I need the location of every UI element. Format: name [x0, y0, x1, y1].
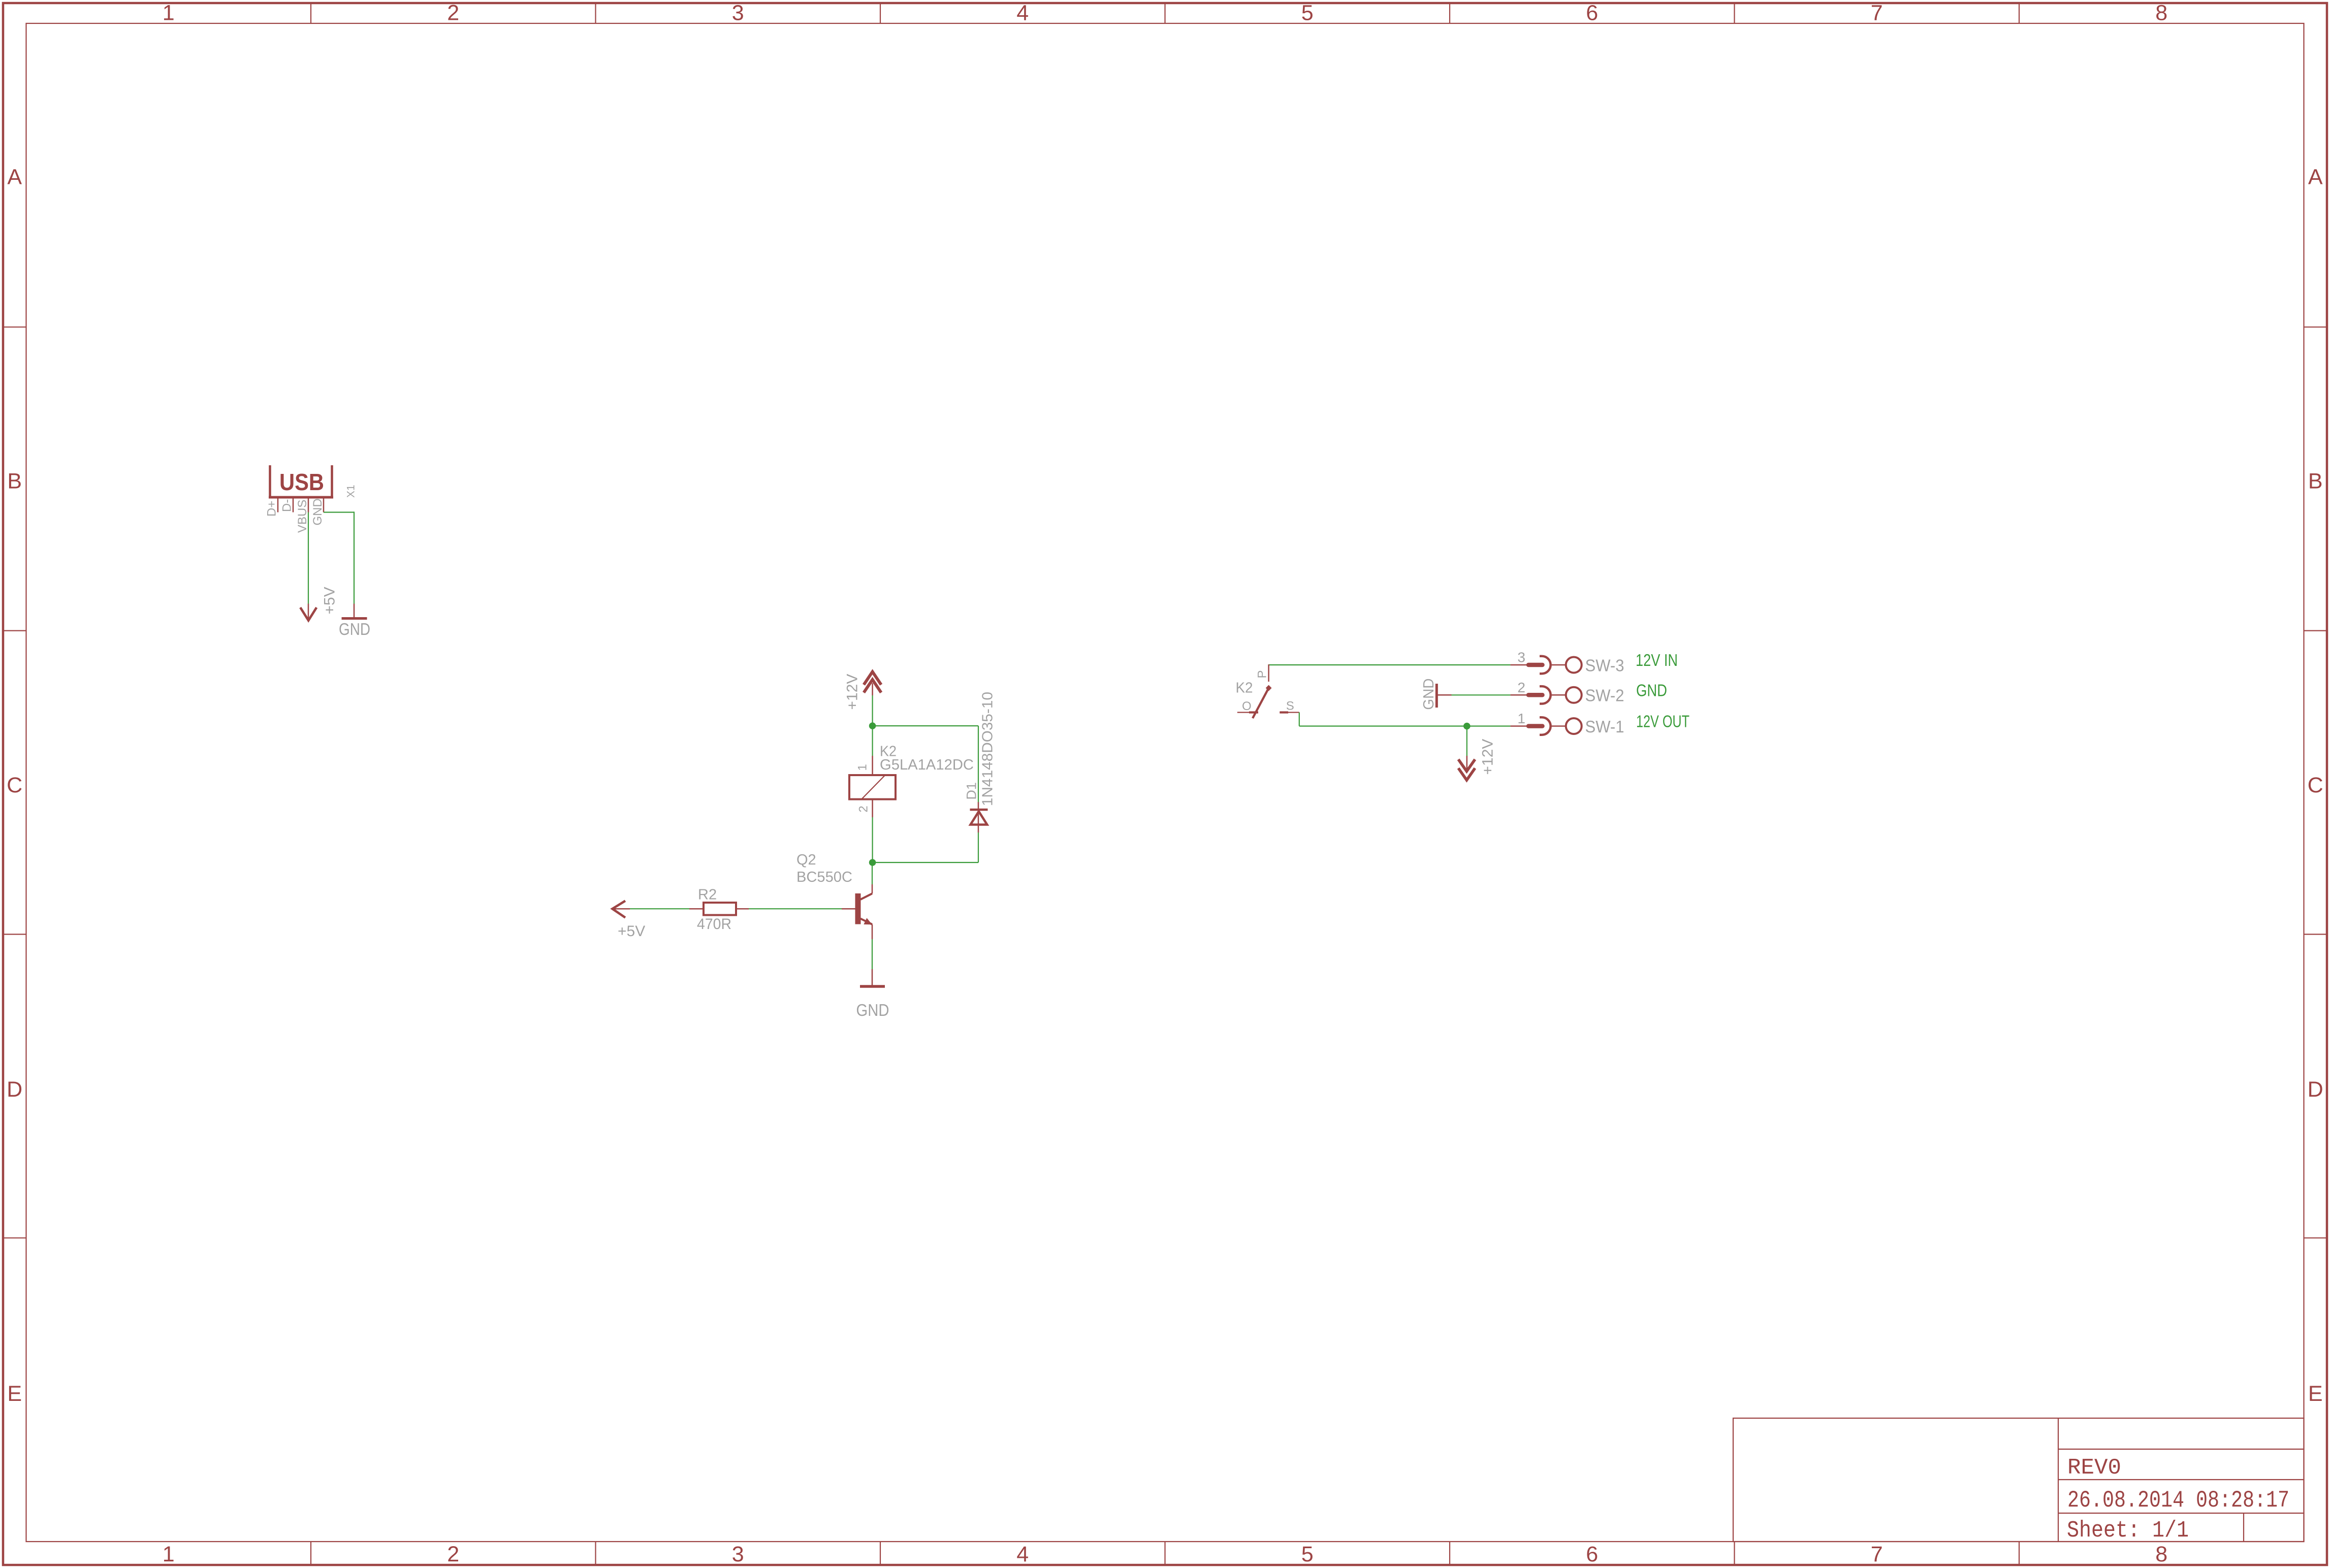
svg-text:12V OUT: 12V OUT [1636, 712, 1689, 731]
svg-text:6: 6 [1586, 1542, 1598, 1566]
wire S contact down [1299, 713, 1300, 726]
svg-text:1: 1 [1517, 711, 1525, 726]
resistor R2 body [704, 903, 736, 915]
svg-text:D: D [7, 1077, 22, 1102]
relay K2 pin 1 [872, 756, 873, 775]
wire junction to +12V down [1466, 726, 1467, 756]
relay K2 coil body [849, 775, 896, 799]
contact terminal S [1280, 712, 1299, 713]
svg-text:+5V: +5V [618, 923, 645, 940]
diode D1 cathode bar [970, 809, 988, 811]
svg-text:A: A [2308, 165, 2323, 189]
svg-text:+12V: +12V [844, 674, 861, 710]
svg-text:GND: GND [1636, 681, 1667, 700]
wire +5V to R2 [630, 908, 689, 909]
svg-text:USB: USB [279, 469, 324, 495]
solder pad SW-2 [1511, 686, 1582, 703]
relay contact K2 pin P [1268, 664, 1269, 682]
supply +12V symbol (down) [1458, 756, 1475, 780]
diode D1 cathode pin [978, 802, 979, 810]
svg-text:1: 1 [856, 764, 870, 771]
wire VBUS net [308, 513, 309, 604]
svg-text:P: P [1256, 670, 1269, 678]
svg-text:2: 2 [1517, 680, 1525, 695]
svg-text:D-: D- [280, 499, 294, 512]
diode D1 anode pin [978, 810, 979, 833]
supply +12V symbol (up) [864, 672, 881, 696]
svg-text:8: 8 [2155, 1542, 2167, 1566]
wire to diode cathode [873, 725, 978, 726]
column number labels bottom: 1-8 [163, 1542, 2167, 1566]
wire P contact to SW-3 [1269, 664, 1511, 665]
svg-text:1: 1 [163, 1, 175, 25]
column tick marks bottom band [311, 1542, 2019, 1565]
svg-text:1: 1 [163, 1542, 175, 1566]
svg-text:D: D [2308, 1077, 2323, 1102]
svg-text:GND: GND [856, 1001, 889, 1019]
solder pad SW-3 [1511, 656, 1582, 674]
svg-text:Sheet: 1/1: Sheet: 1/1 [2067, 1518, 2189, 1544]
svg-text:O: O [1242, 699, 1252, 713]
wire GND net horizontal [324, 511, 354, 513]
svg-text:R2: R2 [698, 887, 717, 903]
svg-text:3: 3 [732, 1542, 744, 1566]
resistor R2 right pin [736, 908, 749, 910]
svg-text:12V IN: 12V IN [1636, 651, 1678, 669]
USB pin D+ [277, 497, 279, 513]
title block outline [1733, 1418, 2304, 1542]
resistor R2 left pin [689, 908, 704, 910]
ground symbol GND (USB) [342, 604, 367, 619]
junction node 12V OUT [1463, 723, 1471, 730]
row tick marks right band [2304, 327, 2327, 1238]
svg-text:SW-3: SW-3 [1585, 656, 1624, 675]
transistor Q2 collector pin [860, 884, 872, 900]
svg-text:5: 5 [1301, 1542, 1314, 1566]
svg-text:B: B [7, 469, 22, 493]
USB connector X1 body [269, 465, 333, 497]
wire GND to SW-2 [1452, 694, 1511, 695]
supply +5V arrow (left) [613, 901, 630, 918]
junction node collector [869, 859, 876, 866]
svg-text:REV0: REV0 [2067, 1455, 2121, 1481]
svg-text:4: 4 [1016, 1542, 1029, 1566]
row letter labels left: A-E [7, 165, 22, 1406]
svg-text:C: C [7, 773, 22, 797]
ground symbol GND (Q2) [860, 969, 885, 986]
contact blade [1253, 688, 1269, 719]
svg-text:2: 2 [447, 1, 459, 25]
svg-text:+12V: +12V [1480, 739, 1496, 775]
USB pin GND [323, 497, 325, 513]
transistor Q2 base bar [855, 893, 861, 924]
svg-text:D1: D1 [964, 782, 979, 800]
svg-text:BC550C: BC550C [796, 869, 852, 885]
row tick marks left band [3, 327, 26, 1238]
wire diode anode to collector node [873, 862, 978, 863]
svg-text:8: 8 [2155, 1, 2167, 25]
svg-text:3: 3 [732, 1, 744, 25]
contact terminal O [1237, 712, 1258, 713]
wire base to R2 [749, 908, 842, 909]
svg-text:2: 2 [447, 1542, 459, 1566]
svg-text:GND: GND [311, 498, 325, 525]
svg-text:1N4148DO35-10: 1N4148DO35-10 [980, 692, 996, 806]
svg-text:C: C [2308, 773, 2323, 797]
svg-text:6: 6 [1586, 1, 1598, 25]
wire +12V to relay pin 1 [872, 695, 873, 756]
ground symbol GND (rotated) [1437, 684, 1451, 708]
svg-text:Q2: Q2 [796, 852, 816, 868]
svg-text:2: 2 [857, 806, 871, 812]
svg-text:E: E [2308, 1382, 2323, 1406]
wire S contact to SW-1 [1299, 725, 1511, 726]
svg-text:3: 3 [1517, 650, 1525, 665]
relay coil diagonal [861, 775, 885, 799]
contact pivot [1266, 685, 1272, 691]
svg-text:5: 5 [1301, 1, 1314, 25]
wire collector node to Q2 [872, 862, 873, 884]
USB pin D- [293, 497, 294, 513]
svg-text:B: B [2308, 469, 2323, 493]
svg-text:D+: D+ [265, 501, 279, 517]
svg-text:SW-2: SW-2 [1585, 686, 1624, 705]
transistor Q2 emitter pin with arrow [860, 919, 872, 940]
wire relay pin2 to collector node [872, 817, 873, 862]
USB pin VBUS [308, 497, 309, 513]
column tick marks top band [311, 3, 2019, 23]
svg-text:S: S [1286, 699, 1294, 713]
svg-text:GND: GND [1421, 679, 1437, 710]
svg-text:470R: 470R [697, 916, 731, 933]
svg-text:SW-1: SW-1 [1585, 717, 1624, 736]
svg-text:7: 7 [1871, 1542, 1883, 1566]
wire GND net vertical [354, 511, 355, 603]
column number labels top: 1-8 [163, 1, 2167, 25]
svg-text:G5LA1A12DC: G5LA1A12DC [880, 757, 974, 773]
svg-text:+5V: +5V [322, 587, 338, 614]
svg-text:E: E [7, 1382, 22, 1406]
svg-text:26.08.2014 08:28:17: 26.08.2014 08:28:17 [2067, 1487, 2289, 1514]
row letter labels right: A-E [2308, 165, 2323, 1406]
svg-text:7: 7 [1871, 1, 1883, 25]
wire diode anode down [978, 833, 979, 862]
svg-text:4: 4 [1016, 1, 1029, 25]
transistor Q2 base pin [842, 908, 855, 910]
junction node +12V branch [869, 722, 876, 729]
wire emitter to ground [872, 939, 873, 969]
relay K2 pin 2 [872, 799, 873, 818]
svg-text:VBUS: VBUS [296, 500, 309, 533]
diode D1 triangle [971, 812, 987, 825]
supply +5V arrow (down) [300, 604, 316, 621]
svg-text:K2: K2 [1236, 680, 1253, 696]
svg-text:X1: X1 [345, 485, 357, 498]
svg-text:GND: GND [339, 620, 370, 638]
solder pad SW-1 [1511, 717, 1582, 734]
svg-text:A: A [7, 165, 22, 189]
